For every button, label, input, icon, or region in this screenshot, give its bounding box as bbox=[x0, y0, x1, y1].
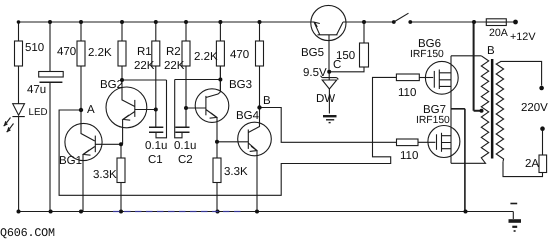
ground (zener) bbox=[323, 116, 337, 122]
svg-text:2A: 2A bbox=[525, 158, 539, 170]
wire fuse to 220V terminal bbox=[542, 131, 544, 155]
svg-text:BG2: BG2 bbox=[100, 79, 123, 91]
resistor 2.2K left bbox=[118, 22, 126, 80]
transformer core bbox=[491, 59, 494, 159]
resistor 2.2K right bbox=[216, 22, 224, 92]
transistor BG1 bbox=[65, 110, 121, 212]
capacitor C2 bbox=[175, 80, 190, 138]
wire source node to ground rail bbox=[451, 109, 465, 212]
wire BG2 collector to C1 bbox=[122, 79, 167, 81]
resistor 110 lower bbox=[397, 139, 419, 146]
svg-text:20A: 20A bbox=[489, 27, 509, 39]
svg-text:C: C bbox=[333, 59, 341, 71]
svg-text:IRF150: IRF150 bbox=[416, 115, 450, 126]
LED bbox=[4, 104, 25, 212]
svg-text:22K: 22K bbox=[164, 60, 185, 72]
svg-text:R2: R2 bbox=[166, 46, 181, 58]
svg-text:510: 510 bbox=[25, 42, 44, 54]
transformer secondary winding bbox=[496, 62, 503, 162]
resistor 3.3K right bbox=[213, 142, 221, 212]
svg-text:A: A bbox=[87, 104, 95, 116]
transistor BG5 bbox=[311, 5, 346, 71]
svg-text:220V: 220V bbox=[521, 102, 548, 114]
svg-text:0.1u: 0.1u bbox=[174, 140, 196, 152]
fuse 2A bbox=[539, 155, 547, 173]
wire bottom ground rail bbox=[19, 211, 514, 213]
node A bbox=[79, 108, 83, 112]
svg-text:+12V: +12V bbox=[510, 31, 536, 43]
watermark blue dashes on rail bbox=[113, 211, 243, 213]
MOSFET BG7 IRF150 bbox=[418, 126, 460, 158]
resistor 3.3K left bbox=[117, 144, 125, 211]
svg-text:BG3: BG3 bbox=[229, 79, 252, 91]
svg-text:9.5V: 9.5V bbox=[303, 67, 327, 79]
wire BG7 source to primary bottom bbox=[451, 162, 480, 164]
svg-text:2.2K: 2.2K bbox=[88, 47, 112, 59]
svg-text:B: B bbox=[263, 95, 271, 107]
switch contacts bbox=[392, 20, 396, 24]
svg-text:LED: LED bbox=[29, 107, 48, 118]
fuse 20A bbox=[486, 19, 506, 26]
node B bbox=[257, 105, 261, 109]
svg-text:3.3K: 3.3K bbox=[93, 169, 117, 181]
wire node A to BG6 gate bbox=[59, 77, 396, 195]
svg-text:IRF150: IRF150 bbox=[410, 49, 444, 60]
svg-text:0.1u: 0.1u bbox=[145, 140, 167, 152]
switch S bbox=[394, 13, 409, 22]
wire secondary top to 220V terminal bbox=[501, 61, 542, 85]
capacitor C1 bbox=[149, 80, 167, 138]
zener diode DW bbox=[321, 72, 339, 114]
wire secondary bottom to fuse 2A bbox=[503, 162, 543, 177]
svg-text:470: 470 bbox=[57, 46, 76, 58]
wire BG3 collector to C2 bbox=[175, 79, 221, 81]
wire node B to BG7 gate bbox=[260, 108, 397, 143]
svg-text:2.2K: 2.2K bbox=[194, 51, 218, 63]
svg-text:Q606.COM: Q606.COM bbox=[0, 226, 55, 240]
svg-text:DW: DW bbox=[316, 93, 335, 105]
resistor 110 upper bbox=[396, 74, 419, 81]
wire top +12V rail bbox=[19, 21, 516, 23]
220V terminals bbox=[539, 86, 544, 91]
svg-text:47u: 47u bbox=[27, 84, 46, 96]
transistor BG4 bbox=[217, 108, 271, 212]
resistor 150 bbox=[329, 22, 368, 72]
transformer primary winding bbox=[480, 56, 489, 164]
wire center tap (thick) bbox=[474, 22, 482, 111]
svg-text:B: B bbox=[487, 45, 495, 57]
wire BG6 drain to primary top bbox=[451, 55, 481, 57]
svg-text:110: 110 bbox=[398, 87, 416, 99]
rail junction dots bbox=[17, 210, 21, 214]
svg-text:R1: R1 bbox=[137, 46, 152, 58]
node C bbox=[327, 70, 331, 74]
+12V terminal bbox=[513, 20, 518, 25]
resistor 510 bbox=[15, 22, 23, 104]
transistor BG2 bbox=[106, 80, 156, 144]
svg-text:470: 470 bbox=[230, 49, 249, 61]
svg-text:22K: 22K bbox=[134, 60, 155, 72]
svg-text:C1: C1 bbox=[148, 154, 163, 166]
resistor R1 22K bbox=[152, 22, 160, 127]
center tap junction bbox=[480, 109, 484, 113]
svg-text:BG5: BG5 bbox=[301, 47, 324, 59]
ground (main, bottom right) bbox=[509, 204, 522, 232]
resistor R2 22K bbox=[182, 22, 190, 127]
wire MOSFET drain-source bus bbox=[450, 56, 452, 164]
svg-text:BG1: BG1 bbox=[59, 155, 82, 167]
svg-text:3.3K: 3.3K bbox=[224, 166, 248, 178]
capacitor 47u bbox=[39, 22, 64, 212]
MOSFET BG6 IRF150 bbox=[419, 61, 458, 94]
svg-text:BG4: BG4 bbox=[236, 110, 260, 122]
resistor 470 right bbox=[256, 22, 264, 107]
svg-text:C2: C2 bbox=[178, 154, 193, 166]
resistor 470 left bbox=[77, 22, 85, 110]
svg-text:110: 110 bbox=[400, 150, 418, 162]
transistor BG3 bbox=[186, 66, 229, 142]
